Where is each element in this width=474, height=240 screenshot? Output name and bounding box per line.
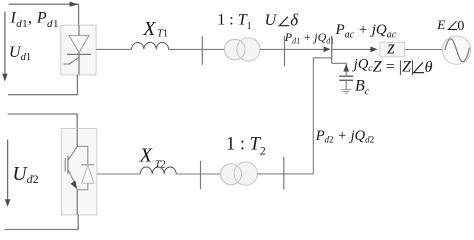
svg-text:Pd2 + jQd2: Pd2 + jQd2	[315, 128, 374, 145]
ground	[341, 89, 351, 91]
AC source G1 circle	[442, 36, 470, 64]
thyristor cathode bar	[67, 53, 91, 55]
thyristor triangle	[69, 35, 89, 52]
IGBT collector diagonal	[68, 146, 77, 160]
transformer T1 winding circles	[225, 39, 246, 60]
thyristor gate lead	[64, 57, 80, 64]
wire diode branch top jog	[77, 146, 88, 164]
wire XT1 to T1 primary bar	[169, 48, 203, 50]
transformer T2 primary terminal bar	[200, 161, 202, 189]
svg-text:X: X	[139, 144, 153, 166]
thyristor cathode lead	[78, 53, 80, 75]
arrowhead jQc flow (up)	[343, 64, 349, 72]
arrowhead Id1 current arrow	[70, 2, 79, 7]
transformer T2 winding circles	[221, 164, 242, 185]
node AC bus bar	[331, 36, 333, 64]
capacitor Bc plates	[339, 75, 353, 77]
svg-text:δ: δ	[290, 10, 299, 29]
svg-text:T1: T1	[157, 29, 168, 40]
wire AC bus jog down to lower branch	[313, 58, 331, 174]
wire converter 2 AC output to XT2	[97, 173, 140, 175]
wire T1 bar to AC bus with power-flow arrow	[285, 48, 330, 50]
svg-text:1 : T1: 1 : T1	[217, 12, 251, 32]
IGBT emitter diagonal with arrow	[68, 170, 75, 185]
wire top DC rail of converter 1 with current arrow	[9, 4, 79, 25]
svg-text:Id1, Pd1: Id1, Pd1	[10, 10, 59, 30]
transformer T2 secondary terminal bar	[283, 157, 285, 190]
transformer T1 secondary terminal bar	[284, 36, 286, 67]
IGBT emitter lead to box bottom	[76, 189, 78, 215]
wire converter 1 bottom DC return	[8, 75, 77, 95]
wire diode branch bottom jog	[77, 183, 88, 190]
svg-text:Z = |Z|: Z = |Z|	[373, 59, 414, 76]
svg-text:Pd1 + jQd1: Pd1 + jQd1	[284, 30, 334, 45]
wire capacitor to ground	[345, 80, 347, 89]
transformer T1 primary terminal bar	[201, 36, 203, 65]
svg-text:U: U	[265, 12, 278, 29]
converter box U2 (VSC IGBT converter)	[61, 129, 97, 215]
impedance box Z	[380, 42, 405, 57]
inductor XT2	[140, 167, 176, 174]
converter box U1 (LCC thyristor rectifier)	[61, 25, 96, 75]
IGBT channel bar	[67, 156, 69, 175]
svg-text:1 : T2: 1 : T2	[226, 134, 266, 157]
wire XT2 to T2 primary bar	[176, 173, 200, 175]
voltage arrow Ud1 (down)	[4, 12, 6, 76]
svg-text:X: X	[142, 18, 156, 40]
svg-text:Bc: Bc	[355, 78, 370, 98]
svg-text:0: 0	[457, 19, 464, 34]
svg-text:Ud2: Ud2	[13, 164, 39, 186]
wire converter 1 AC output to XT1	[96, 48, 132, 50]
wire bar to T2 windings	[201, 173, 222, 175]
diode D1 triangle	[82, 165, 94, 183]
voltage arrow Ud2 (down)	[7, 140, 9, 201]
wire bar to T1 windings	[202, 48, 225, 50]
arrowhead Pd1+jQd1 flow	[324, 46, 331, 52]
IGBT collector entry lead	[76, 129, 78, 147]
svg-text:Ud1: Ud1	[9, 44, 31, 63]
thyristor anode lead	[78, 25, 80, 35]
wire T2 windings to secondary bar	[257, 173, 283, 175]
svg-text:T2: T2	[155, 159, 166, 170]
svg-text:E: E	[436, 17, 445, 32]
arrowhead Pac+jQac flow	[370, 46, 377, 52]
wire AC bus to impedance z with arrow	[332, 48, 376, 50]
svg-text:θ: θ	[425, 59, 433, 76]
wire bus to shunt capacitor stub	[332, 63, 347, 76]
IGBT gate bar	[64, 158, 66, 172]
wire top DC rail of converter 2	[8, 114, 78, 129]
wire T1 windings to secondary bar	[260, 48, 285, 50]
AC source sine wave	[445, 39, 470, 62]
diode D1 cathode bar	[81, 164, 94, 166]
svg-text:z: z	[386, 38, 395, 59]
wire impedance box to source	[405, 49, 443, 51]
svg-text:jQc: jQc	[352, 57, 374, 75]
wire converter 2 bottom DC return	[5, 215, 79, 230]
inductor XT1	[132, 42, 169, 49]
wire T2 bar to riser corner	[284, 173, 314, 175]
